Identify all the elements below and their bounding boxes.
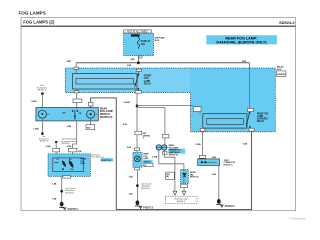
svg-text:(PHOTO 4): (PHOTO 4) — [101, 159, 111, 162]
svg-text:D4AF/D4AL (EUROPE ONLY): D4AF/D4AL (EUROPE ONLY) — [216, 41, 267, 45]
front relay switch — [137, 71, 139, 74]
svg-text:(PHOTO 2): (PHOTO 2) — [100, 115, 113, 119]
rear relay pin box — [247, 108, 253, 111]
svg-text:1.25B: 1.25B — [195, 144, 201, 146]
svg-text:0.5B: 0.5B — [212, 157, 217, 159]
fog lamp switch (cyan solid) — [36, 108, 98, 121]
pin box under circles — [163, 152, 168, 155]
svg-text:0.5B: 0.5B — [67, 146, 72, 148]
coil to switch wire — [76, 89, 78, 108]
svg-text:M02: M02 — [87, 128, 90, 130]
svg-text:0.5B: 0.5B — [212, 174, 217, 176]
relay box hatch lightening — [66, 69, 190, 92]
svg-text:LAMP: LAMP — [143, 157, 149, 160]
svg-text:0.5G: 0.5G — [123, 124, 128, 126]
front fog lamps box — [48, 154, 90, 177]
svg-text:5: 5 — [143, 138, 144, 140]
junction node — [137, 61, 140, 64]
rear switch routing wire (long run) — [91, 98, 252, 210]
svg-text:0.5B: 0.5B — [243, 144, 248, 146]
connector box on relay box edge — [193, 107, 201, 112]
rear fog relay coil — [203, 114, 247, 128]
joint connector box — [198, 159, 220, 166]
svg-text:FOG LAMPS (2): FOG LAMPS (2) — [23, 20, 55, 25]
pin box at switch top — [88, 102, 93, 106]
svg-text:0.85G: 0.85G — [31, 101, 37, 103]
circles label — [168, 144, 185, 156]
svg-text:BOX: BOX — [155, 40, 160, 42]
svg-text:10A: 10A — [141, 43, 145, 46]
pin box coil 86 — [74, 91, 78, 93]
branch wire to joint circles — [137, 108, 165, 145]
pin box coil 85 — [74, 67, 78, 69]
svg-text:PHOTO 5: PHOTO 5 — [68, 209, 79, 211]
center column: M01 connector — [135, 131, 142, 135]
svg-text:1.25B: 1.25B — [152, 156, 158, 158]
svg-text:(SD921-1): (SD921-1) — [40, 141, 49, 143]
svg-text:RELAY: RELAY — [257, 120, 265, 123]
front relay pin 30 — [136, 69, 141, 71]
svg-text:SD924-2: SD924-2 — [279, 20, 295, 25]
svg-text:0.5R: 0.5R — [130, 59, 135, 61]
ground G08 — [216, 199, 235, 208]
svg-text:(WHITE): (WHITE) — [277, 74, 285, 76]
svg-text:1.4B: 1.4B — [52, 183, 57, 186]
pin box — [163, 134, 169, 138]
connector pin box — [73, 99, 82, 103]
svg-text:LAMP: LAMP — [144, 80, 151, 83]
rear fog lamp box — [133, 152, 142, 167]
bus wire horizontal — [76, 62, 249, 64]
svg-text:REAR FOG: REAR FOG — [257, 112, 269, 115]
svg-text:LAMP: LAMP — [257, 115, 264, 118]
ground G02 — [135, 200, 154, 209]
joint connector ground wire — [218, 165, 220, 199]
relay box (cyan region, union shape) — [65, 68, 275, 132]
svg-text:(SD924-1): (SD924-1) — [177, 201, 186, 203]
lamp ground wire — [61, 176, 63, 202]
page arrows — [173, 191, 177, 195]
fuse bus bar — [131, 34, 140, 36]
fuse F15 symbol — [137, 37, 139, 49]
svg-text:0.85L: 0.85L — [46, 146, 52, 148]
rear relay feed wire — [249, 63, 251, 109]
mechanical dashed link — [76, 108, 78, 110]
ground G05 — [59, 202, 78, 211]
svg-text:0.5G/W: 0.5G/W — [123, 102, 130, 104]
E/R fuse box (cyan dashed) — [124, 33, 154, 55]
switch bottom connector stub — [90, 118, 92, 124]
inner housing rect — [53, 158, 84, 172]
indicator bulb — [87, 110, 95, 118]
switch contacts — [72, 110, 74, 112]
wire fuse to bus — [137, 56, 139, 63]
svg-text:(PHOTO 4): (PHOTO 4) — [169, 153, 178, 156]
wire to rear relay coil — [137, 105, 193, 107]
pin box below — [135, 167, 140, 170]
lamp RH (bulb blob) — [69, 160, 74, 167]
svg-text:0.5R: 0.5R — [127, 65, 132, 67]
svg-text:FOG LAMPS: FOG LAMPS — [19, 11, 46, 16]
diode lower box — [181, 184, 188, 188]
front fog relay coil U1 — [73, 74, 138, 90]
wire right circle to arrow — [164, 150, 175, 191]
svg-text:0.5B: 0.5B — [67, 126, 72, 128]
junction node — [136, 104, 139, 107]
svg-text:RELAY: RELAY — [144, 82, 152, 85]
main diagram border — [21, 18, 296, 211]
pin box — [139, 56, 142, 58]
switch label — [100, 106, 113, 118]
svg-text:(SD126-1): (SD126-1) — [65, 192, 74, 194]
joint connector circles — [156, 145, 161, 150]
svg-text:1.25B: 1.25B — [33, 128, 39, 130]
joint tab node — [55, 141, 57, 143]
wire left circle to diode — [159, 150, 184, 169]
diode box — [181, 170, 189, 184]
illumination wire — [41, 94, 43, 111]
REAR FOG LAMP note (cyan highlighted) — [206, 35, 277, 44]
svg-text:(SD928-1): (SD928-1) — [61, 143, 70, 145]
svg-text:0.5R: 0.5R — [242, 61, 247, 63]
connector label box — [166, 172, 175, 179]
svg-text:PHOTO 5: PHOTO 5 — [225, 206, 236, 208]
svg-text:(PHOTO 1): (PHOTO 1) — [224, 164, 233, 166]
rear relay coil ground wire — [201, 132, 203, 159]
svg-text:(PHOTO 3): (PHOTO 3) — [190, 177, 199, 179]
wire to rear fog lamp — [136, 135, 138, 152]
header underline — [21, 25, 296, 27]
ref dashed box — [165, 196, 197, 203]
svg-text:0.5G: 0.5G — [127, 147, 132, 149]
lamp LH (bulb blob) — [62, 160, 66, 167]
svg-text:1.4B: 1.4B — [128, 193, 133, 196]
svg-text:OFF: OFF — [62, 112, 65, 114]
svg-text:1.4B: 1.4B — [128, 176, 133, 179]
svg-text:(SD921-1): (SD921-1) — [38, 90, 47, 92]
RELAY BOX (WHITE) label — [277, 66, 286, 77]
front relay pin 87 — [135, 91, 141, 94]
illumination bulb — [38, 110, 46, 118]
rear relay switch — [249, 112, 251, 114]
switch output wire to lamps — [73, 121, 77, 154]
svg-text:(SD126-1): (SD126-1) — [141, 188, 150, 190]
svg-text:(WHITE): (WHITE) — [143, 135, 150, 137]
svg-text:PHOTO 5: PHOTO 5 — [143, 208, 154, 210]
HOT AT ALL TIMES box — [124, 30, 152, 34]
wire into front relay coil — [75, 63, 77, 74]
rear lamp ground wire — [136, 170, 138, 201]
rear relay pin 87 — [249, 128, 254, 131]
svg-text:1.4B: 1.4B — [52, 198, 57, 201]
svg-text:LAMP RELAY: LAMP RELAY — [169, 151, 181, 154]
wire relay87 down — [136, 93, 138, 131]
switch lower illumination wire — [41, 118, 43, 134]
svg-text:TJ 72/Electrical: TJ 72/Electrical — [289, 217, 306, 220]
